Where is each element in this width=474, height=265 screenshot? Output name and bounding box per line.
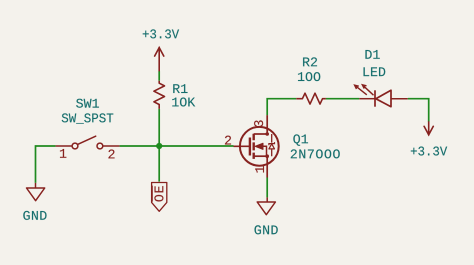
resistor R1 (154, 81, 165, 109)
Q1 gate bar (249, 138, 251, 156)
label 100 (298, 72, 320, 81)
power label +3.3V (top) (143, 29, 179, 38)
pin number 2 (gate) (225, 136, 231, 145)
label R2 (303, 57, 317, 66)
Q1 gate pin (234, 145, 250, 147)
label R1 (173, 84, 187, 93)
Q1 rail junction dot (source) (265, 154, 269, 158)
power symbol +3.3V (right, pointing down) (424, 122, 433, 135)
switch SW1 contact 1 (72, 143, 78, 149)
Q1 source rail (254, 155, 268, 157)
Q1 body diode triangle (269, 144, 275, 149)
switch SW1 contact 2 (97, 143, 103, 149)
wire junction down to OE flag (158, 146, 160, 182)
wire LED to +3.3V (right) (408, 99, 429, 122)
wire switch to Q1 gate (120, 145, 234, 147)
hierarchical label flag OE (152, 183, 167, 212)
pin number 1 (source) (255, 166, 264, 172)
Q1 drain rail (254, 133, 268, 135)
Q1 channel dashes (252, 134, 254, 159)
power symbol +3.3V (top) (155, 48, 164, 72)
Q1 drain pin (266, 115, 268, 134)
ground pin stub (left) (35, 183, 37, 188)
power label +3.3V (right) (411, 147, 447, 156)
label LED (364, 67, 386, 76)
label SW1 (76, 99, 99, 108)
label SW_SPST (62, 113, 114, 123)
label 2N7000 (291, 149, 340, 158)
OE overbar (151, 186, 153, 202)
label Q1 (293, 134, 308, 145)
junction node (156, 143, 162, 149)
label 10K (172, 98, 195, 107)
label GND (left) (23, 211, 46, 220)
wire R1 to junction (158, 109, 160, 146)
Q1 body diode bar (269, 142, 275, 145)
Q1 rail junction dot (drain) (265, 132, 269, 136)
Q1 body diode cathode lead (271, 134, 273, 156)
label D1 (365, 50, 379, 59)
Q1 source pin (266, 156, 268, 177)
LED D1 anode pin (391, 98, 408, 100)
Q1 substrate arrow (255, 143, 263, 149)
switch SW1 pin 2 (103, 145, 120, 147)
ground symbol (under Q1) (257, 202, 275, 215)
ground pin stub (right) (266, 197, 268, 202)
LED D1 triangle (376, 90, 391, 106)
transistor Q1 body circle (240, 127, 279, 166)
pin number 1 (SW1) (60, 149, 66, 158)
wire +3.3V to R1 (158, 71, 160, 80)
switch SW1 pin 1 (56, 145, 72, 147)
LED D1 cathode pin (359, 98, 375, 100)
wire Q1 drain up to R2 row (267, 99, 296, 115)
wire GND riser to switch row (36, 146, 56, 183)
label OE (rotated) (154, 186, 163, 201)
pin number 3 (drain) (254, 120, 263, 126)
wire R2 to LED (326, 98, 359, 100)
resistor R2 (296, 93, 326, 104)
ground symbol (left) (27, 188, 45, 201)
LED D1 cathode bar (374, 90, 376, 106)
Q1 substrate link (263, 146, 267, 156)
LED D1 emission arrow b (362, 85, 373, 95)
wire Q1 source to ground (266, 178, 268, 198)
label GND (right) (255, 225, 278, 234)
switch SW1 lever (78, 136, 96, 144)
LED D1 emission arrow a (355, 85, 367, 95)
pin number 2 (SW1) (108, 150, 114, 159)
